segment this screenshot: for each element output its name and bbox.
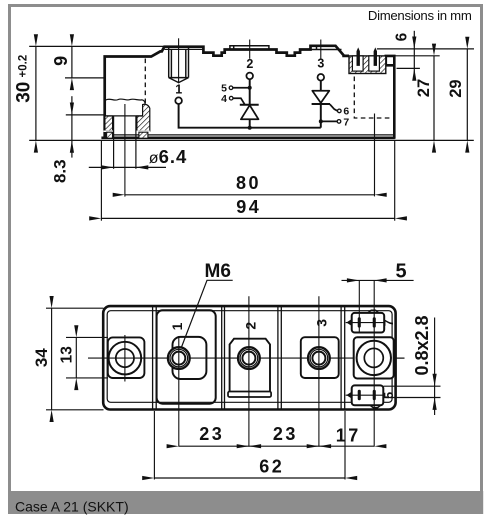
rim reference line B — [394, 55, 439, 57]
baseplate top line — [105, 134, 395, 136]
right terminal slot 2 — [369, 56, 380, 71]
terminal 4 circle — [229, 96, 233, 100]
svg-text:30: 30 — [14, 82, 35, 103]
right terminal block (hatched) — [349, 56, 386, 74]
dim 62 extension left — [153, 411, 155, 480]
terminal 2 base flange — [228, 392, 271, 398]
break wavy line (left section) — [106, 99, 146, 104]
left mounting boss — [108, 337, 145, 378]
title bar — [8, 491, 483, 514]
svg-text:9: 9 — [51, 56, 71, 66]
svg-text:1: 1 — [175, 83, 182, 97]
terminal 3 screw outer — [308, 347, 330, 369]
extension line left edge — [100, 141, 102, 221]
bushing top line — [105, 115, 150, 117]
right hole outer — [357, 341, 391, 375]
hidden edge dashed (left section) — [144, 59, 146, 116]
dim 34 ref bottom — [46, 409, 104, 411]
svg-text:Dimensions in mm: Dimensions in mm — [368, 8, 472, 23]
thyristor T2 triangle — [241, 105, 259, 119]
dim 23 line b — [249, 445, 319, 447]
node 3 circle — [318, 74, 325, 81]
bottom tab blade 1 — [358, 390, 361, 400]
wire node1 to rail — [179, 104, 321, 128]
svg-text:62: 62 — [259, 457, 284, 477]
dim 9 reference line — [65, 77, 105, 79]
right hole inner — [364, 348, 383, 367]
divider 2 — [222, 307, 225, 409]
svg-text:34: 34 — [32, 348, 51, 367]
svg-text:7: 7 — [343, 116, 349, 128]
svg-text:8.3: 8.3 — [51, 159, 70, 183]
wire node3 down — [320, 81, 322, 91]
node 2 circle — [246, 73, 253, 80]
terminal 2 screw hole — [242, 352, 255, 365]
svg-text:ø6.4: ø6.4 — [149, 146, 188, 167]
terminal 1 section square — [157, 310, 216, 403]
right terminal slot 1 — [352, 56, 363, 71]
pin 2 — [374, 49, 376, 66]
case outline (side view profile) — [105, 46, 349, 139]
dim 8.3 line with outside arrows — [71, 96, 73, 157]
thyristor T3 triangle — [312, 91, 329, 103]
step reference line C — [397, 67, 420, 69]
top tab marker triangle — [346, 319, 351, 326]
svg-text:Case A 21 (SKKT): Case A 21 (SKKT) — [15, 499, 129, 515]
svg-text:2: 2 — [243, 322, 259, 330]
terminal 2 centerline — [248, 296, 250, 446]
terminal 3 screw ring — [310, 349, 328, 367]
top tab blade 1 — [358, 317, 361, 327]
svg-text:M6: M6 — [205, 261, 231, 282]
mounting hole left edge — [113, 116, 115, 169]
dim 0.8x2.8 ref top — [384, 385, 441, 387]
bushing left flange (hatched) — [105, 116, 113, 131]
svg-text:94: 94 — [236, 197, 261, 217]
dim 30 line — [35, 46, 37, 140]
baseplate hatched left — [107, 132, 113, 138]
baseplate slab — [101, 136, 394, 139]
thyristor T3 cathode bar — [312, 103, 331, 105]
wire 7 — [321, 120, 337, 122]
node 1 circle — [175, 97, 182, 104]
mounting plane line — [29, 139, 474, 141]
terminal 2 screw ring — [240, 349, 258, 367]
bottom tab blade 2 — [373, 390, 376, 400]
svg-text:5: 5 — [395, 260, 406, 282]
divider 3 — [278, 307, 281, 409]
svg-text:7: 7 — [382, 319, 396, 326]
svg-text:3: 3 — [317, 56, 324, 70]
terminal 3 top plate tick and plateau line — [311, 46, 342, 50]
module outline (top view) — [103, 306, 395, 409]
terminal 1 screw ring — [170, 349, 188, 367]
dim 62 line — [154, 477, 345, 479]
svg-text:1: 1 — [169, 322, 185, 330]
dim 13 ref top — [66, 336, 108, 338]
junction dot rail T2 — [248, 126, 252, 130]
terminal 7 circle — [337, 120, 341, 124]
dim 34 line — [51, 308, 53, 410]
bottom fast-on tab — [352, 385, 384, 405]
extension line right edge — [394, 141, 396, 221]
main horizontal centerline — [88, 357, 405, 359]
terminal 3 centerline — [320, 40, 322, 59]
svg-text:17: 17 — [336, 425, 361, 445]
pin 1 — [357, 49, 359, 66]
centerline stub right — [396, 357, 405, 359]
right hole boss — [354, 337, 394, 378]
terminal 1 centerline — [178, 38, 180, 83]
M6 leader — [181, 280, 232, 347]
left mounting hole outer — [109, 342, 142, 375]
terminal 1 boss square — [173, 337, 207, 379]
svg-text:29: 29 — [447, 79, 465, 97]
terminal 1 collar plate inner line — [165, 48, 204, 50]
svg-text:3: 3 — [313, 319, 329, 327]
svg-text:27: 27 — [415, 79, 433, 97]
svg-text:13: 13 — [59, 346, 76, 364]
screw terminal 1 cone — [169, 78, 189, 83]
terminal 3 screw hole — [312, 352, 325, 365]
terminal 2 centerline — [249, 40, 251, 59]
terminal 1 screw outer — [168, 347, 190, 369]
thyristor T2 cathode bar — [240, 104, 259, 106]
divider 4 — [341, 307, 345, 409]
junction dot rail T3 — [319, 119, 323, 123]
right hole extension line — [374, 114, 376, 197]
bushing separation line — [104, 130, 150, 132]
svg-text:23: 23 — [273, 424, 298, 444]
dim 6 line with outside arrows — [413, 31, 415, 77]
dim 8.3 reference line — [66, 114, 105, 116]
hidden pocket dashed — [354, 77, 391, 119]
bottom tab marker triangle — [346, 392, 351, 399]
pin tips reference line A — [377, 48, 474, 50]
module inner ledge line — [107, 311, 392, 403]
bushing right flange (hatched) — [137, 104, 150, 131]
left mounting hole inner — [116, 349, 134, 367]
bottom tab notch — [370, 405, 381, 408]
dim 13 line — [75, 337, 77, 378]
svg-text:2: 2 — [246, 57, 253, 71]
dim 80 line — [125, 194, 375, 196]
dim 27 line — [433, 56, 435, 141]
dim 23 line a — [179, 445, 249, 447]
dim 13 ref bottom — [66, 377, 108, 379]
terminal 5 circle — [229, 86, 233, 90]
svg-text:+0.2: +0.2 — [17, 55, 29, 78]
mounting hole centerline — [124, 104, 126, 197]
terminal 3 centerline — [318, 296, 320, 446]
wire 5 — [233, 87, 250, 89]
case right rim and right edge — [386, 56, 395, 139]
mounting hole right edge — [135, 116, 137, 169]
terminal 2 raised square — [230, 339, 270, 392]
dim 0.8x2.8 line — [434, 318, 436, 416]
dim 62 extension right — [344, 411, 346, 480]
dim 6.4 leader line — [89, 166, 166, 168]
terminal 1 screw hole — [172, 352, 185, 365]
gate wire T3 — [330, 104, 338, 111]
dim 0.8x2.8 ref bottom — [384, 397, 441, 399]
top reference line — [29, 45, 170, 47]
svg-text:80: 80 — [236, 173, 261, 193]
left hole vertical centerline — [124, 335, 126, 382]
blade column 2 centerline — [373, 281, 375, 447]
wire 4 (gate T2) — [233, 98, 245, 104]
wire node2 down — [249, 79, 251, 105]
dim 17 line — [319, 445, 374, 447]
dim 34 ref top — [46, 307, 104, 309]
svg-text:23: 23 — [199, 424, 224, 444]
top tab centerline — [346, 322, 384, 324]
screw terminal 1 threads — [169, 47, 189, 78]
dim 5 line — [342, 279, 414, 281]
top tab peak — [368, 310, 379, 313]
terminal 2 top plate — [230, 46, 269, 50]
top tab blade 2 — [373, 317, 376, 327]
dim 29 line — [466, 49, 468, 140]
wire T3 to rail — [320, 103, 322, 128]
svg-text:6: 6 — [394, 32, 411, 41]
terminal 1 centerline — [178, 336, 180, 447]
blade column 1 centerline — [358, 281, 360, 332]
baseplate hatched right — [139, 132, 148, 138]
terminal 3 section square — [301, 337, 339, 378]
divider 1 — [153, 307, 157, 409]
dim 9 line — [71, 46, 73, 78]
svg-text:0.8x2.8: 0.8x2.8 — [412, 315, 432, 375]
junction dot (gate node T2) — [248, 86, 252, 90]
svg-text:4: 4 — [221, 93, 227, 105]
dim 94 line — [101, 217, 394, 219]
top fast-on tab — [352, 313, 385, 333]
terminal 6 circle — [338, 109, 342, 113]
bottom tab centerline — [346, 394, 384, 396]
wire T2 to rail — [249, 119, 251, 127]
terminal 2 screw outer — [238, 347, 260, 369]
